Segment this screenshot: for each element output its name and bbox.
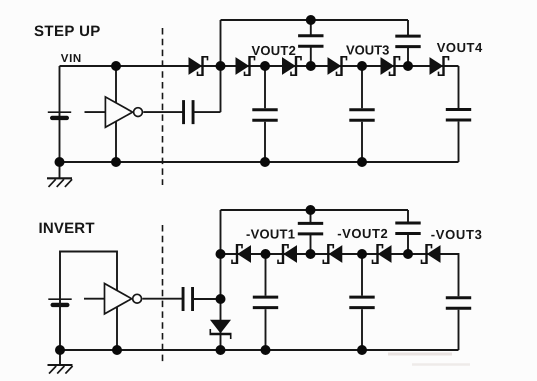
- svg-text:-VOUT3: -VOUT3: [431, 227, 483, 242]
- capacitor C2: [252, 110, 277, 121]
- diode D3: [283, 56, 302, 76]
- node VIN: [111, 61, 121, 71]
- node B1: [216, 249, 226, 259]
- diode D5: [381, 56, 400, 76]
- node B2: [306, 249, 316, 259]
- diode D8: [278, 244, 297, 264]
- wire battery bottom: [59, 299, 61, 350]
- wire C11 bottom lead: [310, 235, 312, 254]
- diode D6: [430, 56, 449, 76]
- wire ground stem: [59, 162, 61, 178]
- wire battery vertical: [59, 66, 61, 162]
- node rail2 C9: [357, 345, 367, 355]
- node rail2 battery: [55, 345, 65, 355]
- diode D4: [328, 56, 347, 76]
- wire C9 bottom lead: [361, 309, 363, 350]
- wire clock vertical 2: [220, 210, 222, 350]
- wire C7 to node: [193, 298, 221, 300]
- wire C2 top lead: [264, 66, 266, 108]
- wire top rail: [221, 19, 409, 21]
- wire inverter2 output: [142, 298, 182, 300]
- capacitor C7 flying: [183, 287, 193, 311]
- node A2: [306, 61, 316, 71]
- wire C8 top lead: [265, 254, 267, 296]
- wire C6 bottom lead: [407, 48, 409, 66]
- node VOUT2: [260, 61, 270, 71]
- capacitor C10 output: [446, 298, 471, 309]
- ground 2: [48, 365, 73, 374]
- wire inverter2 input stub: [84, 298, 105, 300]
- svg-text:VOUT3: VOUT3: [346, 43, 389, 58]
- wire clock vertical: [220, 20, 222, 112]
- wire C9 top lead: [361, 254, 363, 296]
- wire C4 bottom lead: [458, 122, 460, 162]
- wire bottom rail: [60, 161, 459, 163]
- capacitor C8: [253, 297, 278, 308]
- wire C2 bottom lead: [264, 122, 266, 162]
- wire top rail 2: [221, 209, 409, 211]
- wire battery top loop: [60, 252, 117, 299]
- wire C3 top lead: [361, 66, 363, 108]
- wire C12 top lead: [407, 210, 409, 222]
- watermark smudge: [388, 354, 470, 365]
- node ground rail C3: [357, 157, 367, 167]
- diode D10: [373, 244, 392, 264]
- diode D2: [236, 56, 255, 76]
- svg-text:VOUT2: VOUT2: [252, 43, 297, 58]
- wire C11 top lead: [310, 210, 312, 222]
- node ground rail C2: [260, 157, 270, 167]
- node rail2 inverter: [112, 345, 122, 355]
- diode D1: [189, 56, 208, 76]
- diode D11: [422, 244, 441, 264]
- node rail2 D12: [216, 345, 226, 355]
- wire ground stem 2: [59, 350, 61, 365]
- node top rail junction: [306, 15, 316, 25]
- svg-text:INVERT: INVERT: [39, 220, 95, 237]
- wire C8 bottom lead: [265, 309, 267, 350]
- svg-text:VOUT4: VOUT4: [437, 40, 483, 55]
- node top rail 2 junction: [306, 205, 316, 215]
- op-amp U1 inverter: [105, 97, 142, 127]
- wire C5 top lead: [310, 20, 312, 35]
- node VOUT3: [357, 61, 367, 71]
- node ground rail battery: [55, 157, 65, 167]
- node -VOUT2: [357, 249, 367, 259]
- wire C5 bottom lead: [310, 47, 312, 66]
- wire VIN rail (y=66): [60, 65, 459, 67]
- wire inverter supply vertical: [115, 66, 117, 162]
- node rail2 C8: [261, 345, 271, 355]
- capacitor C1 flying: [184, 100, 194, 124]
- wire C10 bottom lead: [458, 310, 460, 350]
- capacitor C5 flying: [298, 36, 323, 47]
- capacitor C11 flying: [298, 223, 323, 234]
- wire inverter input stub: [85, 111, 107, 113]
- node B3: [403, 249, 413, 259]
- wire inverter2 supply vertical: [116, 285, 118, 350]
- capacitor C12 flying: [395, 223, 420, 234]
- wire main line 2: [221, 254, 459, 296]
- diode D7: [232, 244, 251, 264]
- op-amp U2 inverter: [105, 284, 142, 314]
- diode D9: [323, 244, 342, 264]
- battery B2: [48, 299, 71, 305]
- capacitor C9: [349, 297, 374, 308]
- svg-text:-VOUT1: -VOUT1: [246, 226, 295, 241]
- wire C1 to node: [194, 111, 221, 113]
- capacitor C6 flying: [395, 36, 420, 47]
- capacitor C4 output: [446, 110, 471, 121]
- node -VOUT1: [261, 249, 271, 259]
- diode D12 shunt down: [210, 320, 232, 339]
- node C7 junction: [216, 294, 226, 304]
- node A1: [216, 61, 226, 71]
- capacitor C3: [349, 110, 374, 121]
- ground: [47, 178, 72, 187]
- wire inverter output: [143, 111, 183, 113]
- node ground rail inverter: [111, 157, 121, 167]
- node A3: [403, 61, 413, 71]
- svg-text:STEP UP: STEP UP: [34, 23, 101, 40]
- dashed line boundary 2: [162, 225, 164, 365]
- wire C4 output top lead: [458, 66, 460, 108]
- svg-text:VIN: VIN: [61, 53, 82, 65]
- wire bottom rail 2: [60, 349, 459, 351]
- wire C12 bottom lead: [407, 234, 409, 254]
- wire C3 bottom lead: [361, 122, 363, 162]
- svg-text:-VOUT2: -VOUT2: [337, 226, 388, 241]
- battery B1: [48, 112, 71, 118]
- dashed line boundary 1: [162, 28, 164, 185]
- wire C6 top lead: [407, 20, 409, 35]
